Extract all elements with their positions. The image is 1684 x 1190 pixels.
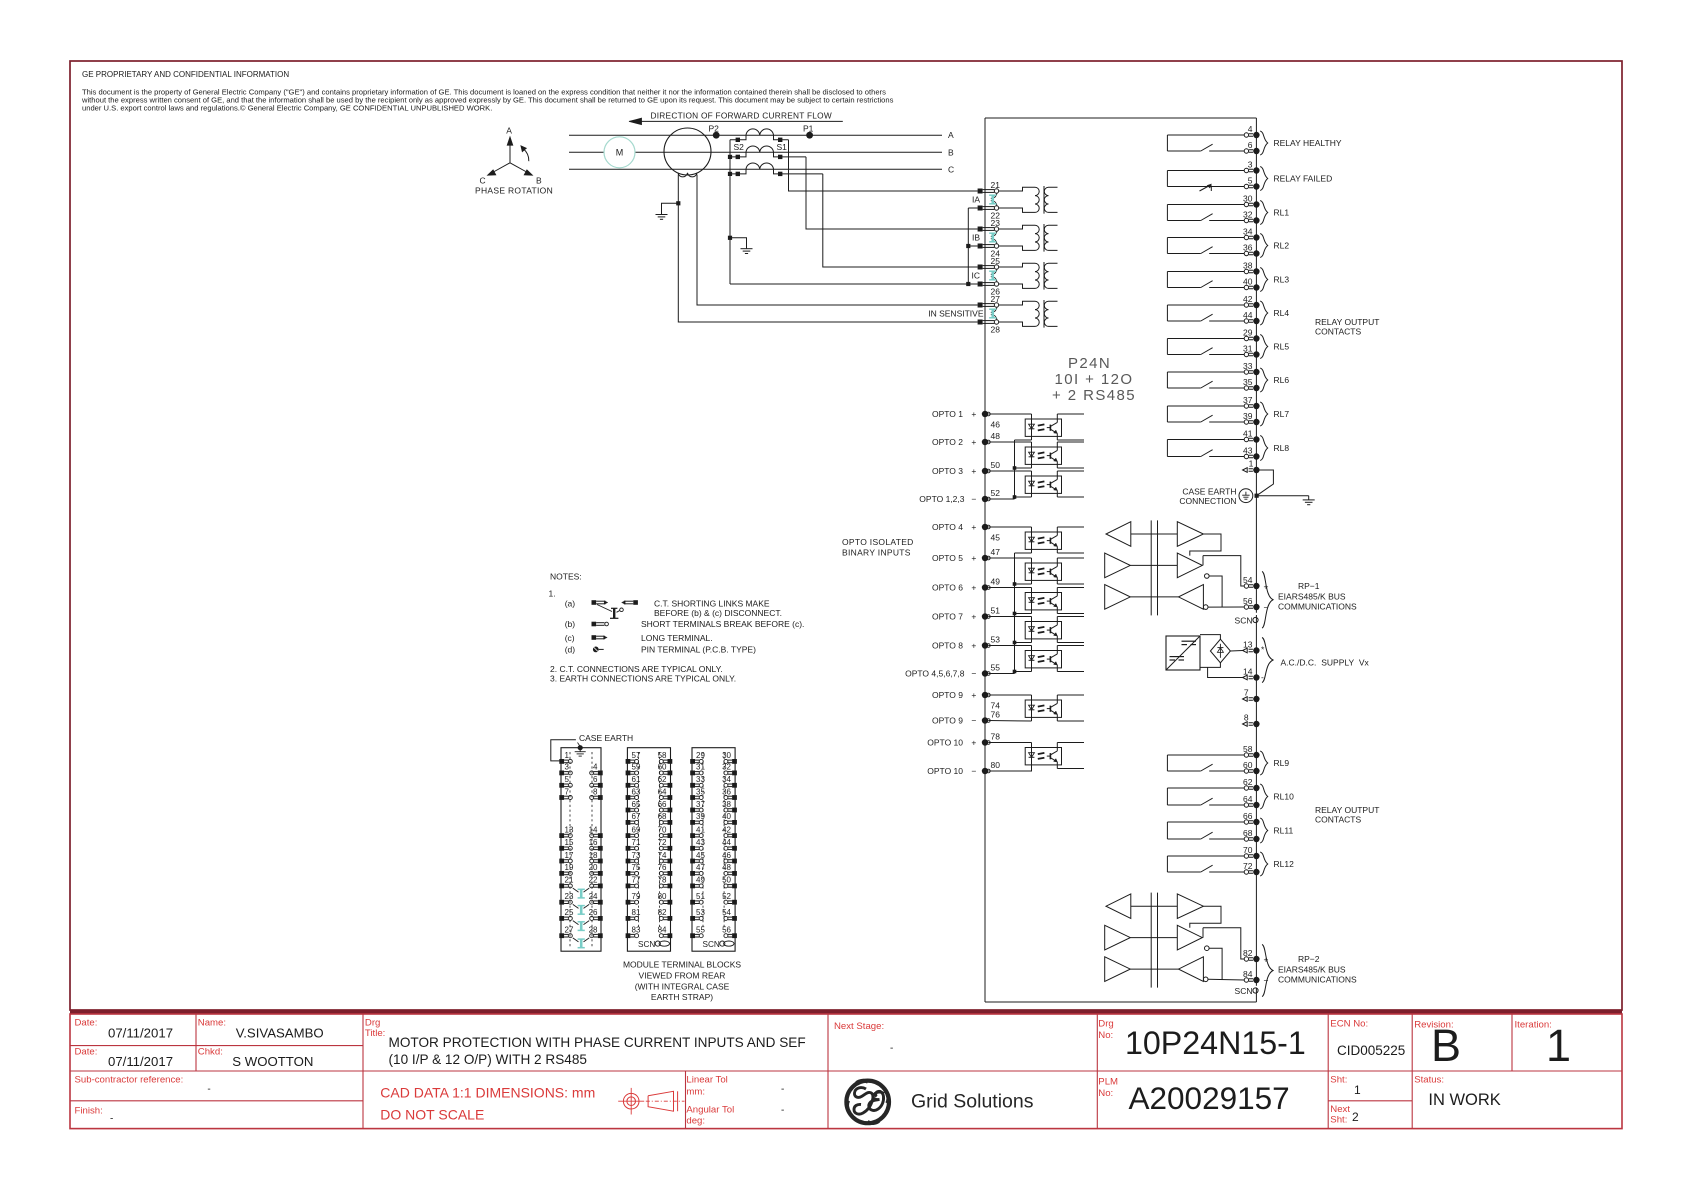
svg-text:56: 56 — [1243, 596, 1253, 606]
block3 terminal 46 — [732, 859, 737, 864]
svg-text:64: 64 — [658, 787, 667, 796]
svg-text:+: + — [971, 611, 976, 621]
RP-2 coupling wires — [1131, 905, 1178, 907]
svg-text:17: 17 — [565, 851, 574, 860]
svg-text:20: 20 — [589, 863, 598, 872]
terminal 26 — [978, 282, 983, 287]
note (d) symbol and text — [565, 645, 756, 655]
svg-text:C: C — [480, 176, 486, 186]
svg-text:58: 58 — [1243, 744, 1253, 754]
svg-text:80: 80 — [991, 760, 1001, 770]
CT input transformer IN SENSITIVE — [999, 300, 1058, 328]
svg-text:(b): (b) — [565, 619, 576, 629]
block2 terminal 72 — [668, 846, 673, 851]
svg-text:OPTO 7: OPTO 7 — [932, 611, 963, 621]
ground: external case earth — [1308, 496, 1310, 500]
svg-text:30: 30 — [1243, 194, 1253, 204]
svg-text:78: 78 — [991, 732, 1001, 742]
block3 terminal 29 — [690, 759, 695, 764]
block3 terminal 54 — [732, 916, 737, 921]
svg-text:49: 49 — [991, 577, 1001, 587]
relay case outline P24N — [985, 118, 1256, 1002]
ground: CT star point earth — [746, 247, 748, 250]
pin: CT B S1 — [778, 155, 782, 159]
svg-text:IA: IA — [972, 194, 980, 204]
svg-text:RP−2: RP−2 — [1298, 954, 1320, 964]
svg-text:07/11/2017: 07/11/2017 — [108, 1054, 173, 1069]
wire: OPTO 5 anode feed — [988, 557, 1031, 559]
svg-text:A.C./D.C. SUPPLY Vx: A.C./D.C. SUPPLY Vx — [1281, 658, 1370, 668]
relay contact RL9 terminals 58/60 — [1167, 744, 1289, 775]
terminal 48 (OPTO 2 +) — [982, 439, 988, 445]
svg-text:39: 39 — [1243, 411, 1253, 421]
terminal P2 primary dot — [713, 132, 720, 139]
svg-text:Drg: Drg — [1098, 1019, 1113, 1030]
block1 terminal 20 — [598, 871, 603, 876]
svg-text:RELAY HEALTHY: RELAY HEALTHY — [1274, 138, 1342, 148]
svg-text:40: 40 — [722, 812, 731, 821]
terminal 52 (OPTO 1,2,3 -) — [982, 496, 988, 502]
wire: S2 earth branch — [730, 238, 747, 248]
svg-text:5: 5 — [565, 775, 570, 784]
RP-1 enable bubble driver2 — [1205, 574, 1210, 579]
wire: CT A S1 lead to relay input — [789, 140, 978, 191]
block2 terminal 70 — [668, 833, 673, 838]
wire: CT common S2 vertical — [729, 140, 731, 284]
RP-2 bus wiring — [1190, 906, 1221, 928]
block3 terminal 40 — [732, 820, 737, 825]
svg-text:IN WORK: IN WORK — [1428, 1091, 1500, 1109]
wire: CT C S2 bracket — [730, 169, 746, 174]
terminal 7 — [1243, 697, 1248, 702]
svg-text:57: 57 — [632, 751, 641, 760]
svg-text:47: 47 — [696, 863, 705, 872]
wire: OPTO 6 anode feed — [988, 587, 1031, 589]
block2 terminal 77 — [626, 884, 631, 889]
svg-text:Grid Solutions: Grid Solutions — [911, 1091, 1034, 1113]
svg-text:SCN: SCN — [638, 940, 655, 949]
svg-text:BINARY INPUTS: BINARY INPUTS — [842, 548, 911, 558]
block1 terminal 26 — [598, 916, 603, 921]
title block — [70, 1010, 1622, 1129]
junction: S2 common earth tap — [728, 236, 732, 240]
svg-text:RL8: RL8 — [1274, 443, 1290, 453]
svg-text:A20029157: A20029157 — [1129, 1080, 1290, 1116]
svg-text:58: 58 — [658, 751, 667, 760]
svg-text:60: 60 — [658, 763, 667, 772]
svg-text:61: 61 — [632, 775, 641, 784]
svg-text:79: 79 — [632, 892, 641, 901]
svg-text:23: 23 — [565, 892, 574, 901]
RP-2 receiver buffer (left) — [1106, 894, 1131, 919]
svg-text:P2: P2 — [709, 124, 720, 134]
optocoupler OPTO 4 — [1025, 532, 1061, 549]
block2 terminal 66 — [668, 808, 673, 813]
ground: toroid secondary earth — [661, 213, 663, 216]
svg-text:OPTO 4: OPTO 4 — [932, 522, 963, 532]
svg-text:CASE EARTH: CASE EARTH — [579, 733, 633, 743]
svg-text:31: 31 — [1243, 344, 1253, 354]
svg-text:14: 14 — [589, 825, 598, 834]
terminal 74 (OPTO 9 +) — [982, 692, 988, 698]
svg-text:OPTO 10: OPTO 10 — [927, 737, 963, 747]
block3 terminal 53 — [690, 916, 695, 921]
svg-text:P1: P1 — [803, 124, 814, 134]
wire: OPTO 7 anode feed — [988, 616, 1031, 618]
pin: CT A S2 — [736, 138, 740, 142]
svg-text:SCN: SCN — [703, 940, 720, 949]
relay contact RELAY FAILED terminals 3/5 — [1167, 160, 1332, 192]
svg-text:Next: Next — [1330, 1104, 1350, 1115]
svg-text:COMMUNICATIONS: COMMUNICATIONS — [1278, 602, 1357, 612]
svg-text:Status:: Status: — [1414, 1075, 1444, 1086]
svg-text:+: + — [971, 690, 976, 700]
svg-text:26: 26 — [589, 908, 598, 917]
svg-text:36: 36 — [1243, 243, 1253, 253]
svg-text:23: 23 — [991, 218, 1001, 228]
relay contact RL7 terminals 37/39 — [1167, 395, 1289, 426]
CT phase B secondary winding — [746, 146, 774, 152]
relay contact RL4 terminals 42/44 — [1167, 294, 1289, 325]
block2 terminal 65 — [626, 808, 631, 813]
block1 terminal 16 — [598, 846, 603, 851]
svg-text:LONG TERMINAL.: LONG TERMINAL. — [641, 633, 713, 643]
svg-text:74: 74 — [658, 851, 667, 860]
relay contact RL2 terminals 34/36 — [1167, 227, 1289, 258]
block3 terminal 44 — [732, 846, 737, 851]
svg-text:OPTO 1,2,3: OPTO 1,2,3 — [919, 494, 964, 504]
terminal 21 — [978, 189, 983, 194]
svg-text:46: 46 — [991, 420, 1001, 430]
svg-text:1.: 1. — [549, 589, 556, 599]
optocoupler OPTO 10 — [1025, 748, 1061, 765]
svg-text:A: A — [506, 126, 512, 136]
terminal RP-1 + — [1244, 584, 1248, 588]
svg-text:-: - — [781, 1084, 784, 1095]
svg-text:RL10: RL10 — [1274, 792, 1295, 802]
svg-text:34: 34 — [722, 775, 731, 784]
shorting link 25/26 — [991, 269, 997, 274]
svg-text:38: 38 — [1243, 261, 1253, 271]
svg-text:13: 13 — [565, 825, 574, 834]
svg-text:52: 52 — [722, 892, 731, 901]
wire: feed terminal 22 — [968, 207, 977, 209]
note (a) symbol and text — [565, 599, 782, 619]
svg-text:24: 24 — [589, 892, 598, 901]
svg-text:NOTES:: NOTES: — [550, 572, 582, 582]
block3 terminal 32 — [732, 771, 737, 776]
svg-text:21: 21 — [991, 180, 1001, 190]
optocoupler OPTO 1 — [1025, 419, 1061, 436]
svg-text:A: A — [948, 130, 954, 140]
svg-text:54: 54 — [1243, 575, 1253, 585]
svg-text:43: 43 — [1243, 446, 1253, 456]
optocoupler OPTO 5 — [1025, 563, 1061, 580]
pin: CT C S2 — [736, 172, 740, 176]
svg-text:42: 42 — [722, 825, 731, 834]
optocoupler OPTO 7 — [1025, 622, 1061, 639]
svg-text:76: 76 — [991, 710, 1001, 720]
svg-text:32: 32 — [722, 763, 731, 772]
block1 terminal 5 — [559, 783, 564, 788]
svg-text:31: 31 — [696, 763, 705, 772]
svg-text:28: 28 — [991, 325, 1001, 335]
svg-text:RELAY FAILED: RELAY FAILED — [1274, 174, 1333, 184]
node: case earth connection point — [1255, 494, 1259, 498]
svg-text:41: 41 — [696, 825, 705, 834]
svg-text:52: 52 — [991, 488, 1001, 498]
svg-text:PLM: PLM — [1098, 1077, 1118, 1088]
svg-text:40: 40 — [1243, 277, 1253, 287]
pin: CT B S2 — [736, 155, 740, 159]
svg-text:+: + — [971, 437, 976, 447]
wire: toroid secondary right lead to terminal 27 — [697, 175, 978, 306]
svg-text:2: 2 — [1352, 1110, 1359, 1124]
svg-text:RP−1: RP−1 — [1298, 581, 1320, 591]
svg-text:21: 21 — [565, 876, 574, 885]
svg-text:VIEWED FROM REAR: VIEWED FROM REAR — [639, 971, 726, 981]
projection symbol — [618, 1088, 684, 1115]
core balance CT toroid — [664, 128, 711, 177]
power supply unit — [1166, 636, 1200, 670]
optocoupler OPTO 3 — [1025, 476, 1061, 493]
svg-text:B: B — [948, 147, 954, 157]
svg-text:Sub-contractor reference:: Sub-contractor reference: — [75, 1075, 184, 1086]
svg-text:8: 8 — [1244, 713, 1249, 723]
svg-text:53: 53 — [696, 908, 705, 917]
terminal 51 (OPTO 7 +) — [982, 613, 988, 619]
label: P24N model — [1052, 355, 1136, 404]
svg-text:7: 7 — [1244, 688, 1249, 698]
svg-text:OPTO ISOLATED: OPTO ISOLATED — [842, 537, 914, 547]
RP-1 driver buffer 2 (right) — [1177, 553, 1202, 578]
svg-text:18: 18 — [589, 851, 598, 860]
svg-text:SCN: SCN — [1235, 616, 1253, 626]
shorting link 27/28 — [991, 307, 997, 312]
wire: phase B line — [569, 151, 942, 153]
wire: opto 9 cathode return — [988, 720, 1031, 723]
svg-text:Next Stage:: Next Stage: — [834, 1021, 884, 1032]
junction: riser at terminal 24 feed — [966, 244, 970, 248]
svg-text:Finish:: Finish: — [75, 1106, 103, 1117]
svg-text:S1: S1 — [777, 142, 788, 152]
wire: opto 10 cathode return — [988, 769, 1031, 772]
svg-text:+: + — [971, 640, 976, 650]
svg-text:OPTO 5: OPTO 5 — [932, 553, 963, 563]
block3 terminal 38 — [732, 808, 737, 813]
svg-text:RL6: RL6 — [1274, 375, 1290, 385]
block2 terminal 82 — [668, 916, 673, 921]
svg-text:35: 35 — [696, 787, 705, 796]
svg-text:PIN TERMINAL (P.C.B. TYPE): PIN TERMINAL (P.C.B. TYPE) — [641, 645, 756, 655]
CT input transformer IA — [999, 186, 1058, 214]
svg-text:RL9: RL9 — [1274, 758, 1290, 768]
svg-text:RL3: RL3 — [1274, 275, 1290, 285]
svg-text:IN SENSITIVE: IN SENSITIVE — [928, 308, 984, 318]
terminal 47 (OPTO 5 +) — [982, 555, 988, 561]
svg-text:7: 7 — [565, 787, 570, 796]
terminal 24 — [978, 244, 983, 249]
optocoupler OPTO 8 — [1025, 651, 1061, 668]
block3 terminal 34 — [732, 783, 737, 788]
svg-text:RL11: RL11 — [1274, 826, 1294, 836]
svg-text:62: 62 — [1243, 777, 1253, 787]
svg-text:16: 16 — [589, 838, 598, 847]
svg-text:37: 37 — [696, 800, 705, 809]
block2 terminal 68 — [668, 820, 673, 825]
svg-text:+: + — [971, 466, 976, 476]
svg-text:71: 71 — [632, 838, 641, 847]
block3 terminal 39 — [690, 820, 695, 825]
block3 terminal 33 — [690, 783, 695, 788]
GE logo — [846, 1081, 889, 1124]
wire: CT B S2 bracket — [730, 152, 746, 157]
svg-text:No:: No: — [1098, 1088, 1113, 1099]
svg-text:44: 44 — [722, 838, 731, 847]
svg-text:IC: IC — [972, 270, 981, 280]
terminal 23 — [978, 227, 983, 232]
svg-text:44: 44 — [1243, 310, 1253, 320]
svg-text:10I + 12O: 10I + 12O — [1055, 371, 1134, 388]
svg-text:DO NOT SCALE: DO NOT SCALE — [380, 1107, 484, 1123]
svg-text:−: − — [971, 494, 976, 504]
svg-text:(a): (a) — [565, 599, 576, 609]
block2 terminal 78 — [668, 884, 673, 889]
terminal RP-2 + — [1244, 957, 1248, 961]
svg-text:CONTACTS: CONTACTS — [1315, 815, 1361, 825]
optocoupler OPTO 2 — [1025, 447, 1061, 464]
svg-text:1: 1 — [1354, 1083, 1361, 1097]
svg-text:68: 68 — [658, 812, 667, 821]
svg-text:5: 5 — [1248, 176, 1253, 186]
RP-2 receiver buffer (right) — [1179, 957, 1204, 982]
svg-text:15: 15 — [565, 838, 574, 847]
block2 terminal 62 — [668, 783, 673, 788]
svg-text:70: 70 — [1243, 845, 1253, 855]
svg-text:25: 25 — [565, 908, 574, 917]
svg-text:60: 60 — [1243, 760, 1253, 770]
RP-1 receiver buffer (right) — [1179, 585, 1204, 610]
svg-text:(WITH INTEGRAL CASE: (WITH INTEGRAL CASE — [635, 982, 730, 992]
block3 terminal 47 — [690, 871, 695, 876]
block3 terminal 56 — [732, 933, 737, 938]
wire: terminal 1 to case earth point — [1256, 470, 1273, 496]
terminal P1 primary dot — [806, 132, 813, 139]
block1 terminal 15 — [559, 846, 564, 851]
svg-text:No:: No: — [1098, 1030, 1113, 1041]
junction: bus joints group1 — [1013, 466, 1017, 470]
svg-text:CAD DATA 1:1 DIMENSIONS: mm: CAD DATA 1:1 DIMENSIONS: mm — [380, 1085, 595, 1101]
svg-text:50: 50 — [722, 876, 731, 885]
wire: OPTO 4 anode feed — [988, 526, 1031, 528]
CT phase C secondary winding — [746, 163, 774, 169]
svg-text:27: 27 — [565, 926, 574, 935]
block1 terminal 19 — [559, 871, 564, 876]
block1 terminal 27 — [559, 933, 564, 938]
terminal RP-2 - — [1244, 978, 1248, 982]
block3 terminal 49 — [690, 884, 695, 889]
block2 terminal 67 — [626, 820, 631, 825]
RP-1 coupling wires — [1131, 533, 1178, 535]
svg-text:-: - — [207, 1084, 210, 1095]
terminal 80 (OPTO 10 -) — [982, 768, 988, 774]
svg-text:Chkd:: Chkd: — [198, 1047, 223, 1058]
svg-text:S WOOTTON: S WOOTTON — [232, 1054, 313, 1069]
block1 terminal 23 — [559, 900, 564, 905]
svg-text:13: 13 — [1243, 640, 1253, 650]
svg-text:51: 51 — [991, 606, 1001, 616]
pin: CT C S1 — [778, 172, 782, 176]
case earth strap — [551, 733, 633, 761]
block1 terminal 4 — [598, 771, 603, 776]
svg-text:6: 6 — [1248, 140, 1253, 150]
label: module terminal blocks caption — [623, 960, 741, 1003]
block2 terminal 80 — [668, 900, 673, 905]
CT input transformer IB — [999, 224, 1058, 252]
module terminal block 2 outline — [627, 748, 670, 952]
svg-text:PHASE ROTATION: PHASE ROTATION — [475, 186, 553, 196]
svg-text:25: 25 — [991, 256, 1001, 266]
svg-text:RL4: RL4 — [1274, 308, 1290, 318]
block3 terminal 55 — [690, 933, 695, 938]
block3 terminal 51 — [690, 900, 695, 905]
svg-text:−: − — [971, 766, 976, 776]
svg-text:(c): (c) — [565, 633, 575, 643]
relay contact RL11 terminals 66/68 — [1167, 811, 1293, 843]
svg-text:69: 69 — [632, 825, 641, 834]
wire: case earth to external ground — [1257, 495, 1309, 497]
svg-text:50: 50 — [991, 460, 1001, 470]
terminal 27 — [978, 303, 983, 308]
svg-text:66: 66 — [1243, 811, 1253, 821]
wire: CT C S1 bracket — [774, 169, 823, 174]
svg-text:36: 36 — [722, 787, 731, 796]
svg-text:29: 29 — [1243, 328, 1253, 338]
svg-text:-: - — [781, 1105, 784, 1116]
svg-text:29: 29 — [696, 751, 705, 760]
RP-2 enable bubble driver2 — [1205, 946, 1210, 951]
terminal RP-1 - — [1244, 605, 1248, 609]
block3 terminal 48 — [732, 871, 737, 876]
block1 terminal 7 — [559, 795, 564, 800]
terminal 53 (OPTO 8 +) — [982, 642, 988, 648]
RP-2 driver buffer 2 (left) — [1105, 957, 1131, 982]
svg-text:65: 65 — [632, 800, 641, 809]
svg-text:1: 1 — [1249, 459, 1254, 469]
svg-text:DIRECTION OF FORWARD CURREN: DIRECTION OF FORWARD CURRENT FLOW — [651, 111, 832, 121]
svg-text:45: 45 — [991, 533, 1001, 543]
terminal 49 (OPTO 6 +) — [982, 584, 988, 590]
svg-text:4: 4 — [593, 763, 598, 772]
junction: toroid earth tap — [676, 201, 680, 205]
svg-text:38: 38 — [722, 800, 731, 809]
wire: phase C line — [569, 168, 942, 170]
RP-1 enable bubble receiver — [1203, 605, 1208, 610]
block1 column dash lines — [569, 752, 571, 948]
svg-text:43: 43 — [696, 838, 705, 847]
block2 terminal 79 — [626, 900, 631, 905]
svg-text:34: 34 — [1243, 227, 1253, 237]
svg-text:6: 6 — [593, 775, 598, 784]
svg-text:33: 33 — [1243, 361, 1253, 371]
RP-1 isolation barrier — [1150, 520, 1152, 615]
wire: phase A line — [569, 134, 942, 136]
svg-text:3: 3 — [565, 763, 570, 772]
svg-text:72: 72 — [1243, 861, 1253, 871]
svg-text:CID005225: CID005225 — [1337, 1043, 1405, 1058]
terminal 13 — [1243, 648, 1248, 653]
svg-text:M: M — [616, 148, 624, 158]
